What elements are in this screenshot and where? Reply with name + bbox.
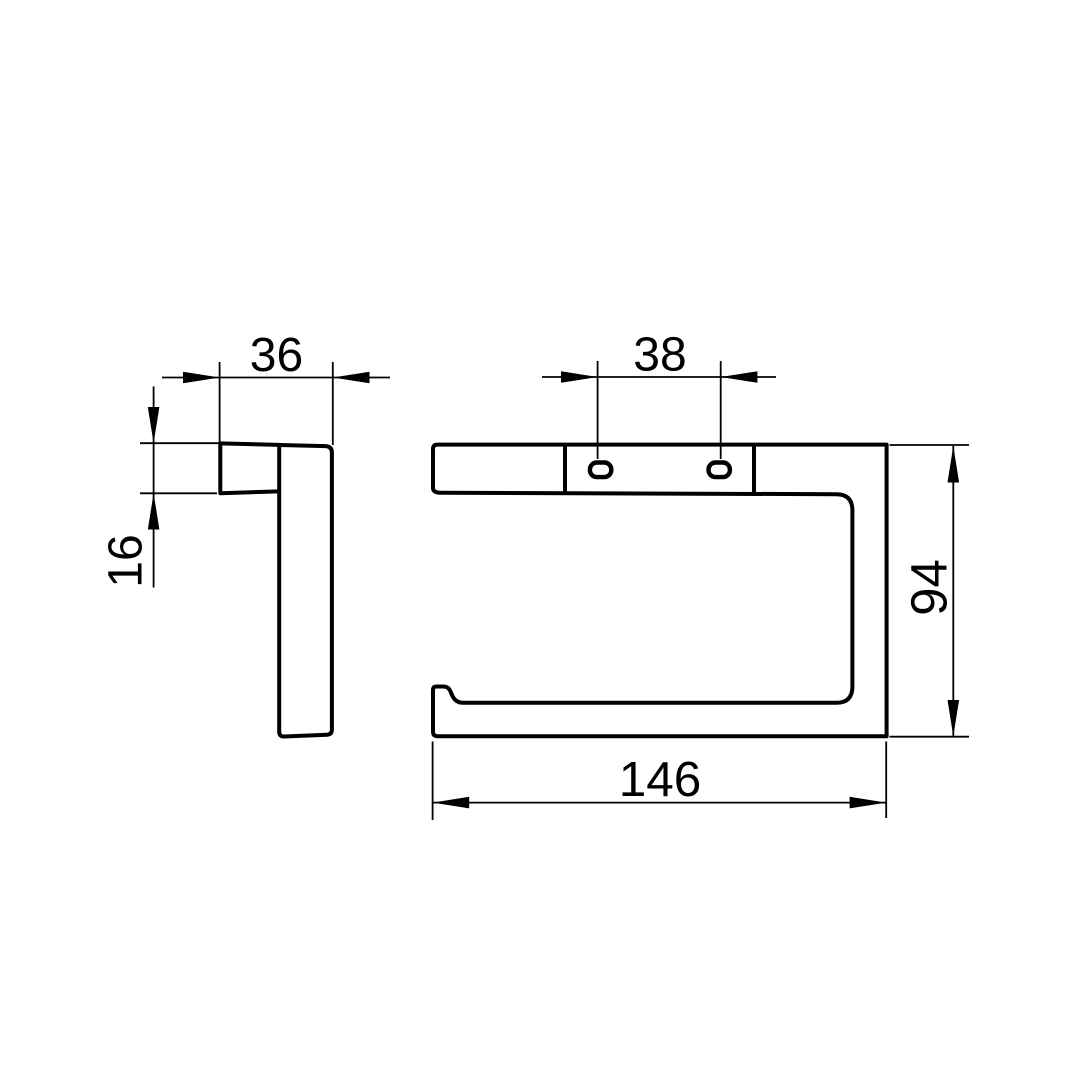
mounting plate left division line (563, 444, 567, 493)
screw hole right (709, 463, 730, 478)
svg-text:16: 16 (100, 534, 153, 587)
svg-text:38: 38 (633, 329, 686, 382)
side view wall plate profile (220, 443, 279, 493)
mounting plate right division line (752, 444, 756, 494)
dimension 36 (162, 362, 390, 445)
dimension 94 (890, 445, 970, 737)
dimension 146 (433, 742, 887, 821)
dimension 38 (542, 361, 776, 459)
front view holder outline (433, 445, 887, 737)
svg-text:94: 94 (901, 559, 958, 616)
screw hole left (590, 463, 611, 478)
side view arm profile (279, 445, 332, 737)
dimension 16 (140, 387, 219, 588)
svg-text:146: 146 (619, 752, 702, 807)
svg-text:36: 36 (250, 329, 303, 382)
